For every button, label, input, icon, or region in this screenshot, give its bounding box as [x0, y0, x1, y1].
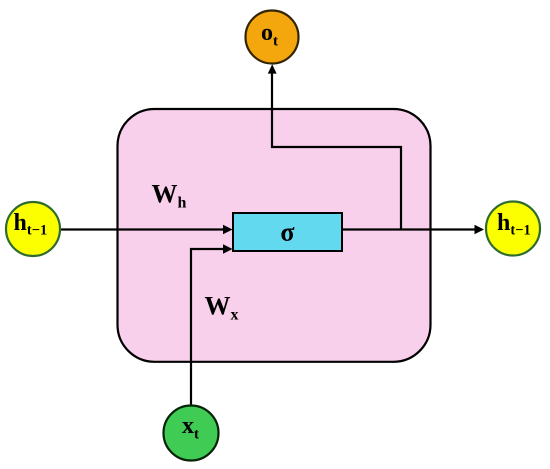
svg-text:σ: σ — [280, 218, 294, 247]
